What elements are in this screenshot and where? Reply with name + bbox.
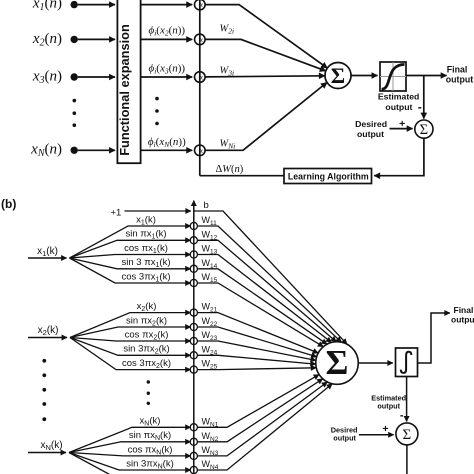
- svg-text:output: output: [333, 434, 356, 443]
- wire WN3 to summer: [197, 382, 327, 456]
- label cos πxN(k) gN: [128, 444, 173, 456]
- weight label WN4: [202, 459, 219, 471]
- label cos πx2(k) g2: [125, 329, 169, 341]
- svg-text:sin 3πx2(k): sin 3πx2(k): [123, 344, 169, 356]
- weight label W15: [202, 272, 218, 284]
- weight label W11: [202, 215, 218, 227]
- error summer Sigma small (b): [396, 423, 418, 445]
- weight label W23: [202, 330, 218, 342]
- svg-text:-: -: [418, 100, 422, 114]
- plus sign (a): [399, 118, 405, 130]
- multiplier node M3: [195, 72, 206, 83]
- label phi(x2(n)): [148, 25, 185, 38]
- svg-text:cos 3πx2(k): cos 3πx2(k): [122, 358, 171, 370]
- input wire x1(k): [28, 257, 67, 259]
- label sin 3 πx1(k) g1: [122, 257, 171, 269]
- weight label W3i: [220, 66, 235, 78]
- input label x1(k): [37, 246, 58, 258]
- svg-text:cos πxN(k): cos πxN(k): [128, 444, 173, 456]
- weight label WNi: [220, 139, 236, 151]
- weight label W22: [202, 316, 218, 328]
- svg-text:output: output: [385, 102, 412, 112]
- weight label WN2: [202, 431, 219, 443]
- svg-text:output: output: [377, 402, 400, 411]
- expansion wire gN row1: [69, 427, 191, 452]
- label Desired output (a): [355, 119, 387, 139]
- wire input to functional expansion: [78, 76, 115, 78]
- label xN(k) gN: [140, 416, 161, 428]
- svg-text:Learning Algorithm: Learning Algorithm: [288, 171, 369, 181]
- label +1: [111, 207, 122, 218]
- wire weighted signal row1 to summer: [205, 5, 327, 69]
- expansion wire gN row5 (clipped): [69, 453, 118, 474]
- svg-text:+1: +1: [111, 207, 122, 218]
- input label x1(n): [32, 0, 62, 13]
- wire summer to activation (b): [358, 362, 393, 364]
- label sin 3πx2(k) g2: [123, 344, 169, 356]
- wire W12 to summer: [197, 240, 336, 341]
- label phi(x3(n)): [148, 63, 185, 76]
- input label xN(n): [30, 142, 62, 160]
- svg-text:sin 3πxN(k): sin 3πxN(k): [126, 458, 174, 470]
- label sin 3πxN(k) gN: [126, 458, 174, 470]
- expansion wire g2 row2: [70, 327, 191, 338]
- weight label W13: [202, 244, 218, 256]
- output wire to final output: [406, 75, 447, 77]
- expansion wire g2 row1: [70, 313, 191, 338]
- svg-text:sin 3 πx1(k): sin 3 πx1(k): [122, 257, 171, 269]
- ellipsis input dots (b): [42, 359, 46, 421]
- activation block sigmoid: [380, 62, 406, 91]
- label (b): [1, 197, 16, 211]
- wire error to learning algorithm: [374, 138, 424, 176]
- svg-text:Final: Final: [447, 64, 468, 74]
- label Desired output (b): [331, 426, 358, 443]
- multiplier node W12: [190, 237, 197, 244]
- label Estimated output (a): [378, 91, 420, 111]
- svg-text:Functional expansion: Functional expansion: [117, 24, 132, 156]
- wire W21 to summer: [197, 313, 318, 353]
- wire W24 to summer: [197, 355, 315, 364]
- error summer Sigma small (a): [415, 120, 433, 138]
- wire desired output to error summer (a): [390, 128, 413, 130]
- multiplier node WN4: [190, 466, 197, 473]
- summer U2 Sigma (b): [316, 342, 359, 385]
- multiplier node W22: [190, 323, 197, 330]
- multiplier node W13: [190, 251, 197, 258]
- svg-text:x2(k): x2(k): [137, 301, 157, 313]
- svg-text:x2(k): x2(k): [38, 325, 59, 337]
- wire W15 to summer: [197, 283, 323, 347]
- ellipsis input dots (a): [73, 99, 77, 127]
- expansion wire g2 row5: [70, 338, 191, 370]
- svg-text:(b): (b): [1, 197, 16, 211]
- weight label W21: [202, 302, 218, 314]
- input label xN(k): [40, 440, 62, 452]
- label cos πx1(k) g1: [124, 243, 168, 255]
- minus sign (b): [400, 409, 404, 421]
- label sin πxN(k) gN: [129, 430, 171, 442]
- svg-text:Desired: Desired: [355, 119, 387, 129]
- multiplier node WN1: [190, 424, 197, 431]
- output wire to final output (b): [418, 313, 450, 363]
- wire desired output to error summer (b): [359, 434, 394, 436]
- svg-text:output: output: [446, 75, 473, 85]
- wire WN4 to summer: [197, 384, 332, 470]
- label phi(xN(n)): [148, 136, 186, 149]
- svg-text:-: -: [400, 409, 404, 421]
- weight label W14: [202, 258, 218, 270]
- label sin πx2(k) g2: [126, 315, 167, 327]
- learning algorithm block: [284, 169, 372, 184]
- svg-text:Σ: Σ: [420, 122, 428, 138]
- weight label WN1: [202, 416, 219, 428]
- expansion wire gN row2: [69, 442, 191, 453]
- wire summer to activation: [351, 75, 378, 77]
- wire W22 to summer: [197, 327, 316, 357]
- weight label W2i: [220, 24, 235, 36]
- label Estimated output (b): [371, 394, 406, 411]
- input label x3(n): [32, 68, 62, 86]
- svg-text:xN(k): xN(k): [140, 416, 161, 428]
- wire W14 to summer: [197, 269, 327, 344]
- svg-text:+: +: [382, 423, 388, 435]
- wire bias b to summer: [194, 211, 347, 344]
- multiplier node W21: [190, 309, 197, 316]
- multiplier node M2: [195, 34, 206, 45]
- label cos 3πx2(k) g2: [122, 358, 171, 370]
- label Final output (b): [451, 305, 474, 324]
- svg-text:cos πx2(k): cos πx2(k): [125, 329, 169, 341]
- input label x2(n): [32, 31, 62, 49]
- feedback wire learning to multipliers: [200, 175, 284, 177]
- input node dot x3: [71, 73, 78, 80]
- svg-text:Σ: Σ: [331, 63, 345, 88]
- multiplier node W23: [190, 337, 197, 344]
- svg-text:x1(k): x1(k): [136, 214, 156, 226]
- svg-text:output: output: [357, 129, 384, 139]
- label x1(k) g1: [136, 214, 156, 226]
- input label x2(k): [38, 325, 59, 337]
- multiplier node WN3: [190, 452, 197, 459]
- label delta W(n): [216, 164, 244, 175]
- input node dot x1: [71, 1, 78, 8]
- summer U1 Sigma (a): [325, 63, 351, 89]
- expansion wire g1 row2: [70, 240, 191, 258]
- wire WN2 to summer: [197, 379, 322, 442]
- wire W23 to summer: [197, 341, 316, 360]
- plus sign (b): [382, 423, 388, 435]
- wire +1 to bus: [125, 210, 191, 212]
- wire W13 to summer: [197, 255, 331, 343]
- expansion wire g1 row5: [70, 258, 191, 283]
- wire phi output: [141, 4, 193, 6]
- expansion wire gN row3: [69, 453, 191, 456]
- label cos 3πx1(k) g1: [122, 271, 171, 283]
- svg-text:xN(n): xN(n): [30, 142, 62, 160]
- multiplier node W15: [190, 279, 197, 286]
- expansion wire gN row4: [69, 453, 191, 471]
- svg-text:sin πx2(k): sin πx2(k): [126, 315, 167, 327]
- wire weighted signal row2 to summer: [205, 39, 326, 71]
- expansion wire g1 row3: [70, 255, 191, 259]
- input wire xN(k): [28, 452, 66, 454]
- label b bias: [204, 200, 209, 211]
- wire W25 to summer: [197, 368, 316, 370]
- branch wire to error summer (b): [406, 377, 408, 422]
- input node dot xN: [71, 147, 78, 154]
- wire weighted signal rowN to summer: [205, 82, 327, 150]
- svg-text:x1(n): x1(n): [32, 0, 62, 13]
- svg-text:xN(k): xN(k): [40, 440, 62, 452]
- multiplier node W14: [190, 265, 197, 272]
- multiplier node MN: [195, 145, 206, 156]
- svg-text:x3(n): x3(n): [32, 68, 62, 86]
- wire phi output: [141, 76, 193, 78]
- expansion wire g2 row4: [70, 338, 191, 356]
- multiplier node W25: [190, 366, 197, 373]
- ellipsis expansion dots (b): [147, 380, 150, 405]
- weight update bus wire: [199, 0, 201, 176]
- wire WN1 to summer: [197, 375, 319, 428]
- functional expansion block: [117, 0, 141, 163]
- weight label W25: [202, 359, 218, 371]
- wire phi output: [141, 38, 193, 40]
- weight label WN3: [202, 445, 219, 457]
- svg-text:+: +: [399, 118, 405, 130]
- summing bus wire (b): [193, 201, 195, 474]
- svg-text:output: output: [451, 315, 474, 325]
- wire phi output: [141, 149, 193, 151]
- expansion wire g2 row3: [70, 338, 191, 342]
- expansion wire g1 row1: [70, 226, 191, 258]
- activation block integrator: [396, 348, 418, 377]
- wire input to functional expansion: [78, 149, 115, 151]
- expansion wire g1 row4: [70, 258, 191, 269]
- multiplier node M1: [195, 0, 206, 10]
- weight label W24: [202, 344, 218, 356]
- multiplier node WN2: [190, 438, 197, 445]
- svg-text:x1(k): x1(k): [37, 246, 58, 258]
- svg-text:cos 3πx1(k): cos 3πx1(k): [122, 271, 171, 283]
- error output wire (b): [406, 445, 408, 474]
- wire weighted signal row3 to summer: [205, 76, 325, 77]
- svg-text:sin πx1(k): sin πx1(k): [125, 229, 166, 241]
- svg-text:Σ: Σ: [326, 343, 349, 382]
- svg-text:b: b: [204, 200, 209, 211]
- input node dot x2: [71, 36, 78, 43]
- svg-text:Estimated: Estimated: [378, 91, 420, 101]
- branch wire to error summer (a): [423, 76, 425, 119]
- wire input to functional expansion: [78, 4, 115, 6]
- svg-text:sin πxN(k): sin πxN(k): [129, 430, 171, 442]
- wire W11 to summer: [197, 226, 341, 342]
- svg-text:x2(n): x2(n): [32, 31, 62, 49]
- svg-text:cos πx1(k): cos πx1(k): [124, 243, 168, 255]
- multiplier node W11: [190, 222, 197, 229]
- input wire x2(k): [28, 337, 67, 339]
- ellipsis phi dots (a): [155, 97, 159, 126]
- svg-text:Σ: Σ: [403, 427, 412, 443]
- label Final output (a): [446, 64, 473, 84]
- svg-text:ΔW(n): ΔW(n): [216, 164, 244, 175]
- wire input to functional expansion: [78, 38, 115, 40]
- label x2(k) g2: [137, 301, 157, 313]
- minus sign (a): [418, 100, 422, 114]
- multiplier node W24: [190, 352, 197, 359]
- label sin πx1(k) g1: [125, 229, 166, 241]
- weight label W12: [202, 229, 218, 241]
